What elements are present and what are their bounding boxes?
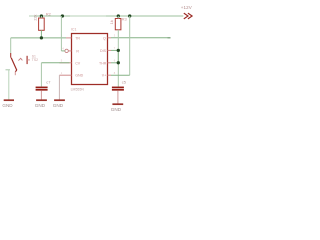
wire DIS pin to tie: [111, 49, 118, 51]
svg-text:THR: THR: [99, 61, 107, 65]
node junction dot rail-R2: [40, 14, 43, 17]
resistor R2: [39, 18, 45, 30]
node junction dot DIS: [117, 49, 120, 52]
wire TR net horizontal: [11, 37, 66, 39]
svg-text:GND: GND: [35, 103, 46, 108]
svg-text:R2: R2: [46, 12, 52, 17]
node junction dot rail-V+ riser: [128, 14, 131, 17]
wire R2 top stub: [40, 16, 42, 18]
lever hook: [15, 70, 16, 72]
capacitor C7: [36, 87, 48, 89]
ground GND3: [54, 99, 65, 101]
pin THR (6): [108, 62, 112, 64]
switch S1: [11, 53, 30, 75]
svg-text:TR: TR: [75, 36, 80, 40]
node junction dot rail-reset riser: [61, 14, 64, 17]
svg-text:1k: 1k: [109, 20, 114, 24]
wire THR pin to tie: [111, 62, 118, 64]
svg-text:V+: V+: [102, 74, 107, 78]
ground GND4: [112, 103, 123, 105]
ground GND2: [36, 99, 47, 101]
capacitor C5: [112, 87, 124, 89]
pin R (4) with bubble: [65, 49, 68, 52]
pin top contact: [10, 53, 12, 58]
svg-text:22k: 22k: [34, 14, 38, 20]
wire C7 to GND2: [40, 91, 42, 101]
svg-text:DIS: DIS: [100, 49, 107, 53]
pin V+ (8): [108, 74, 112, 76]
wire TR net left riser to switch: [10, 38, 12, 53]
pin DIS (7): [108, 49, 112, 51]
wire C5 to GND4: [117, 91, 119, 105]
pin bottom contact stub: [14, 72, 16, 76]
lever: [11, 58, 17, 70]
svg-text:GND: GND: [111, 107, 122, 112]
wire rail stronger segment left: [34, 15, 70, 17]
svg-text:IC1: IC1: [71, 27, 77, 31]
svg-text:Q: Q: [103, 36, 106, 40]
supply +12V arrow: [184, 13, 192, 19]
actuator zigzag arrow: [18, 58, 22, 60]
svg-text:R: R: [76, 49, 79, 53]
svg-text:CV: CV: [75, 61, 81, 65]
svg-text:GND: GND: [75, 74, 83, 78]
wire R2 bottom to TR net: [40, 30, 42, 38]
wire reset jog to bubble: [61, 50, 65, 52]
wire Q output long: [111, 37, 171, 39]
wire R3 top stub: [117, 16, 119, 19]
wire V+ riser from rail: [129, 16, 131, 75]
svg-text:TS2: TS2: [32, 58, 38, 62]
pin Q (3): [108, 37, 112, 39]
wire IC GND pin to GND3: [58, 75, 60, 100]
svg-text:R3: R3: [122, 16, 128, 21]
pin TR (2): [66, 37, 72, 39]
svg-text:GND: GND: [2, 103, 13, 108]
wire DIS-THR tie vertical down to C5: [117, 30, 119, 87]
node junction dot TR net: [40, 36, 43, 39]
svg-text:+12V: +12V: [181, 5, 192, 10]
node junction dot THR: [117, 61, 120, 64]
actuator plate T bar: [26, 56, 28, 64]
IC1 555 timer box: [72, 34, 108, 85]
svg-text:GND: GND: [53, 103, 64, 108]
wire CV net horizontal: [41, 62, 69, 64]
wire rail stronger segment right: [106, 15, 183, 17]
pin CV (5): [59, 62, 71, 64]
wire +12V top rail: [29, 15, 183, 17]
svg-text:LM555N: LM555N: [71, 87, 85, 91]
wire Q tip: [168, 37, 171, 39]
wire CV riser down to C7: [40, 63, 42, 87]
actuator stem: [27, 59, 30, 61]
resistor R3: [115, 19, 121, 30]
wire riser to GND1: [8, 70, 10, 100]
wire switch to GND1: [6, 69, 11, 71]
ground GND1: [4, 99, 14, 101]
node junction dot rail-R3: [117, 14, 120, 17]
pin GND (1): [59, 74, 71, 76]
wire reset riser from rail to R pin bubble: [60, 16, 62, 51]
wire V+ horizontal to pin: [111, 74, 130, 76]
